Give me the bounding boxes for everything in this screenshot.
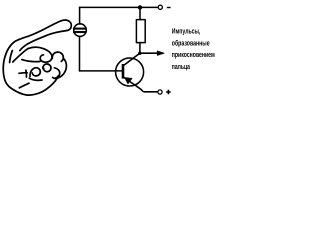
hand curled index finger xyxy=(53,59,67,79)
minus sign xyxy=(167,7,171,9)
hand index finger bottom edge xyxy=(20,31,67,51)
output signal arrow xyxy=(140,52,158,54)
hand wrist + back of hand + index finger top outline xyxy=(3,20,71,80)
resistor top lead xyxy=(139,7,141,19)
wire from top rail down to touch plate xyxy=(79,7,81,24)
hand curled fingers fold xyxy=(29,78,42,80)
junction dot collector node xyxy=(138,52,141,55)
svg-text:Импульсы,: Импульсы, xyxy=(172,26,201,35)
hand curled ring knuckle xyxy=(43,64,51,72)
svg-text:пальца: пальца xyxy=(172,62,191,71)
touch plate lower contact bar xyxy=(73,31,87,33)
hand bottom outline xyxy=(5,76,58,95)
wire from touch plate down xyxy=(79,36,81,71)
hand curled pinky squiggle xyxy=(19,70,27,77)
hand curled middle finger knuckle xyxy=(52,52,63,61)
plus sign xyxy=(166,90,171,95)
resistor R1 body xyxy=(136,20,145,43)
touch plate sensor E1 circle xyxy=(74,24,87,37)
transistor base bar xyxy=(122,64,125,79)
hand curled pinky knuckle xyxy=(30,68,40,77)
hand wrist crease xyxy=(10,51,13,63)
wire to transistor base xyxy=(80,70,122,72)
svg-text:образованные: образованные xyxy=(172,38,210,47)
transistor emitter PNP arrow xyxy=(125,78,132,84)
hand palm inner arc xyxy=(19,83,29,88)
transistor emitter lead xyxy=(124,78,157,92)
junction dot on top rail xyxy=(138,5,142,9)
svg-text:прикосновением: прикосновением xyxy=(172,50,215,59)
wire top rail xyxy=(80,6,158,8)
touch plate upper contact bar xyxy=(73,28,87,30)
label: Impulsy text xyxy=(172,26,215,71)
transistor VT1 circle xyxy=(116,58,144,86)
resistor bottom lead xyxy=(139,43,141,54)
transistor collector lead xyxy=(124,53,140,65)
hand thumb xyxy=(13,47,52,62)
hand thumb lower edge xyxy=(22,60,40,62)
terminal top (minus) xyxy=(158,5,162,9)
terminal bottom (plus) xyxy=(158,90,162,94)
